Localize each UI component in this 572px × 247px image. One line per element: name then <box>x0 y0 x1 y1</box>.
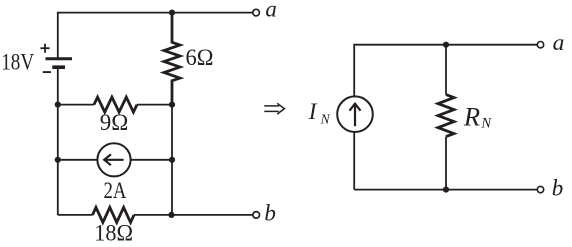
wire: bottom rail right circuit <box>354 189 537 191</box>
current source IN circle <box>337 96 373 132</box>
node dot: right circuit bottom junction <box>443 187 449 193</box>
battery minus sign <box>43 71 51 73</box>
resistor RN vertical <box>438 95 454 137</box>
wire: right vertical between 2A row and bottom rail <box>171 160 173 215</box>
terminal a (right circuit) <box>537 42 543 48</box>
battery 18V: negative short plate <box>52 65 65 69</box>
terminal b (left circuit) <box>253 212 260 219</box>
wire: 2A row right lead <box>132 159 173 161</box>
node dot: 9ohm row left <box>55 102 61 108</box>
svg-text:N: N <box>320 112 331 127</box>
svg-text:9Ω: 9Ω <box>100 110 129 135</box>
resistor 18ohm horizontal <box>93 207 135 222</box>
wire: 2A row left lead <box>58 159 97 161</box>
svg-text:N: N <box>480 116 492 132</box>
svg-text:2A: 2A <box>104 178 127 203</box>
wire: bottom rail right lead to terminal b <box>134 214 253 216</box>
svg-text:6Ω: 6Ω <box>186 45 214 70</box>
svg-text:b: b <box>264 200 276 225</box>
svg-text:I: I <box>308 99 318 124</box>
node dot: 2A row right <box>169 157 175 163</box>
wire: right vertical between 9ohm row and 2A row <box>171 105 173 160</box>
wire: RN branch lower lead <box>445 137 447 190</box>
wire: bottom rail left lead <box>58 214 93 216</box>
wire: top rail left circuit <box>58 13 253 59</box>
svg-text:b: b <box>552 175 564 200</box>
wire: left vertical below battery <box>57 67 59 215</box>
wire: right circuit left branch lower <box>353 132 355 190</box>
wire: 9ohm row right lead <box>137 104 172 106</box>
svg-text:18V: 18V <box>1 50 34 75</box>
implication double arrow <box>264 103 284 114</box>
node dot: bottom junction <box>168 212 174 218</box>
node dot: right circuit top junction <box>443 42 449 48</box>
svg-text:18Ω: 18Ω <box>94 221 133 246</box>
battery plus sign <box>40 44 49 53</box>
wire: RN branch upper lead <box>445 45 447 95</box>
terminal a (left circuit) <box>253 9 260 16</box>
svg-text:a: a <box>265 0 277 22</box>
wire: top rail right circuit <box>354 45 537 96</box>
current source 2A circle <box>97 143 130 176</box>
terminal b (right circuit) <box>537 186 543 192</box>
current source IN arrow (points up) <box>350 104 361 127</box>
battery 18V: positive long plate <box>46 57 73 60</box>
svg-text:a: a <box>553 30 565 56</box>
node dot: 9ohm row right <box>169 102 175 108</box>
node dot: 2A row left <box>55 157 61 163</box>
current source 2A arrow (points left) <box>104 154 123 165</box>
node dot: top junction <box>169 10 175 16</box>
resistor 9ohm horizontal <box>94 97 137 112</box>
resistor 6ohm vertical <box>164 13 180 105</box>
svg-text:R: R <box>463 102 480 132</box>
wire: 9ohm row left lead <box>58 104 94 106</box>
